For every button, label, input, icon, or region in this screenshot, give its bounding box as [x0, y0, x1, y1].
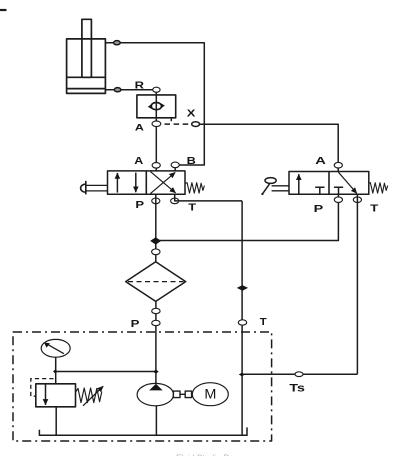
svg-text:T: T — [370, 203, 379, 215]
junction diamond on T riser — [237, 285, 248, 291]
pushbutton actuator — [81, 181, 108, 195]
connector blob on pilot line — [192, 122, 200, 127]
tank bottom line — [39, 427, 247, 435]
svg-text:T: T — [188, 202, 197, 214]
junction diamond at gauge branch — [53, 369, 58, 373]
power unit dash-dot enclosure — [13, 332, 272, 441]
right valve spring — [369, 183, 388, 193]
svg-text:P: P — [314, 203, 324, 215]
pressure relief valve body — [36, 384, 76, 407]
wire: relief valve to tank — [55, 407, 57, 436]
junction diamond at P branch — [150, 237, 161, 244]
wire: gauge stem — [55, 357, 57, 384]
right valve diagonal arrow A to T — [338, 172, 356, 193]
pilot-operated check valve body — [137, 95, 176, 118]
wire: right valve A stub — [337, 165, 339, 171]
wire: P branch to right valve — [156, 194, 338, 240]
wire: cylinder rod-side port to riser — [105, 43, 204, 165]
svg-text:Fluid Studio Drw: Fluid Studio Drw — [176, 453, 239, 456]
crossed arrow A to T — [150, 172, 175, 193]
wire: gauge branch to pump riser — [56, 371, 156, 373]
left valve T port circle — [171, 198, 179, 204]
pilot line X (dashed) — [165, 123, 192, 125]
svg-text:A: A — [134, 156, 143, 167]
wire: T riser down to tank — [241, 201, 243, 435]
relief valve internal arrow — [45, 384, 47, 405]
electric motor M — [192, 383, 228, 406]
filter bottom port circle — [152, 308, 160, 313]
svg-text:X: X — [187, 107, 196, 119]
right valve A port circle — [334, 162, 342, 168]
connector blob on rod-side wire — [114, 41, 121, 45]
right valve T port circle — [353, 197, 361, 203]
right valve right-square blocked P — [334, 187, 343, 194]
svg-text:R: R — [135, 80, 145, 92]
wire: check valve vertical through-line — [155, 92, 157, 171]
filter — [126, 262, 186, 302]
wire: left valve T to T riser — [175, 194, 242, 201]
left valve spring — [185, 183, 204, 193]
svg-text:T: T — [260, 316, 268, 328]
svg-text:P: P — [135, 199, 144, 211]
check valve ball — [148, 103, 165, 110]
left valve B port circle — [171, 162, 179, 168]
right valve left-square blocked T — [315, 187, 324, 194]
left valve A port circle — [152, 163, 160, 169]
relief valve spring — [76, 388, 102, 403]
coupling — [173, 391, 191, 398]
wire: B port stub — [174, 165, 176, 171]
wire: left valve P down to filter — [155, 194, 157, 262]
3/2 directional valve body — [289, 172, 369, 195]
check valve A port circle — [152, 121, 161, 127]
right valve P port circle — [334, 197, 342, 203]
svg-text:P: P — [131, 318, 140, 330]
svg-text:B: B — [187, 155, 197, 167]
connector circle above filter — [152, 249, 160, 255]
crossed arrow P to B — [150, 172, 175, 193]
wire: cylinder cap-side port to check valve R — [105, 89, 153, 91]
wire: right valve T down — [356, 194, 358, 374]
power unit T port circle — [238, 320, 246, 325]
svg-text:A: A — [135, 122, 144, 133]
svg-text:M: M — [204, 387, 216, 402]
Ts port circle — [295, 372, 303, 377]
right valve left-square up arrow — [298, 174, 300, 193]
connector blob on cap-side wire — [114, 88, 121, 92]
svg-text:A: A — [315, 155, 326, 167]
left square up arrow — [116, 173, 118, 193]
wire: pump to tank — [155, 406, 157, 436]
junction diamond at pump riser — [153, 370, 159, 374]
wire: pilot line to right valve A — [200, 124, 339, 165]
wire fragment top-left — [0, 9, 7, 11]
left square down arrow — [135, 173, 137, 193]
pump — [137, 383, 173, 405]
pressure gauge — [41, 339, 70, 357]
relief valve pilot dashed line — [31, 379, 54, 397]
power unit P port circle — [152, 320, 160, 325]
check valve top port circle — [153, 87, 160, 92]
pilot line X dashed stub from valve corner — [170, 118, 172, 121]
wire: filter to pump riser — [155, 301, 157, 383]
wire: Ts return line — [242, 373, 358, 375]
relief valve adjustment arrow — [83, 386, 103, 406]
lever actuator — [261, 178, 289, 195]
cylinder (double-acting, rod up) — [67, 19, 106, 93]
4/2 directional valve body — [108, 171, 186, 194]
left valve P port circle — [152, 198, 160, 204]
svg-text:Ts: Ts — [289, 382, 305, 394]
junction diamond on Ts line — [239, 373, 245, 377]
